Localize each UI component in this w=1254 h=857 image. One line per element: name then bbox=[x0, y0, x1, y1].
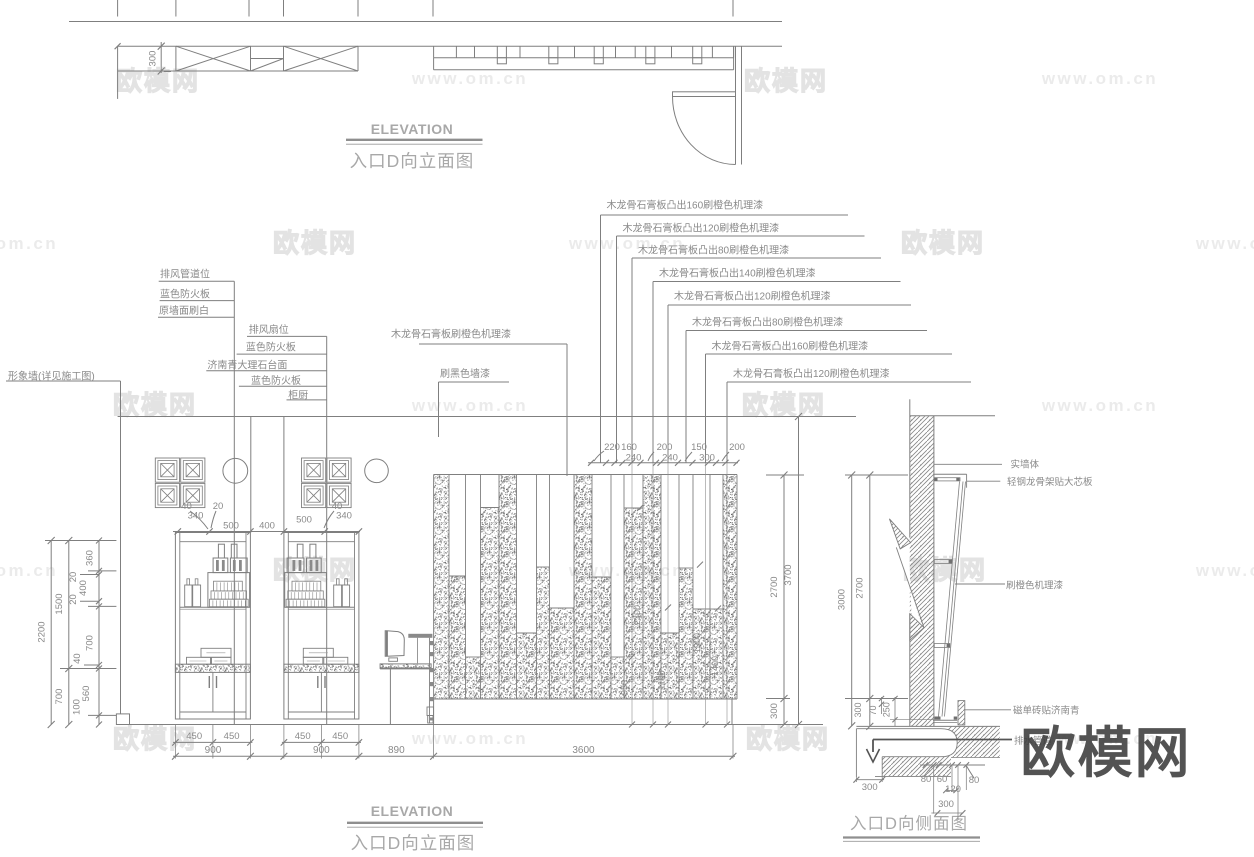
bottom dim extension verticals bbox=[174, 725, 176, 759]
left dim chain col1 2200 bbox=[50, 541, 52, 725]
svg-text:欧模网: 欧模网 bbox=[744, 66, 828, 96]
leader vertical group2 bbox=[326, 336, 328, 724]
ceiling grille 1 bbox=[155, 458, 179, 482]
drain leader dark arrow bbox=[873, 739, 1012, 741]
boxes on counter bbox=[201, 648, 231, 657]
cleat boxes bottom bbox=[427, 707, 434, 716]
dim extension lines right bbox=[766, 474, 804, 476]
stone countertop bbox=[175, 664, 250, 672]
svg-text:2300: 2300 bbox=[632, 605, 642, 625]
slanted glass panel bbox=[939, 482, 960, 717]
svg-text:160: 160 bbox=[621, 442, 637, 453]
POS monitor bbox=[385, 631, 404, 656]
svg-text:欧模网: 欧模网 bbox=[113, 390, 197, 420]
svg-text:500: 500 bbox=[223, 520, 239, 531]
crossed box 2 bbox=[357, 46, 359, 71]
cabinet outer box bbox=[175, 533, 250, 720]
svg-text:3000: 3000 bbox=[837, 589, 848, 610]
svg-text:蓝色防火板: 蓝色防火板 bbox=[246, 341, 296, 354]
svg-text:2200: 2200 bbox=[37, 621, 48, 642]
small box with diagonal bbox=[251, 58, 284, 60]
break bolt white band bbox=[898, 536, 923, 629]
svg-text:100: 100 bbox=[71, 699, 82, 715]
svg-text:木龙骨石膏板刷橙色机理漆: 木龙骨石膏板刷橙色机理漆 bbox=[391, 328, 511, 341]
left dim extension lines bbox=[45, 540, 116, 542]
floor slab hatch bbox=[948, 726, 1000, 757]
top plan strip: wall ticks bbox=[117, 0, 119, 17]
side labels right bbox=[934, 463, 1002, 465]
svg-text:木龙骨石膏板凸出120刷橙色机理漆: 木龙骨石膏板凸出120刷橙色机理漆 bbox=[674, 290, 831, 303]
big bottle A bbox=[310, 544, 316, 558]
svg-text:欧模网: 欧模网 bbox=[746, 724, 830, 754]
svg-text:200: 200 bbox=[657, 442, 673, 453]
tile upstand bbox=[958, 701, 965, 725]
cabinet top dim line bbox=[173, 531, 360, 533]
svg-text:www.om.cn: www.om.cn bbox=[0, 561, 58, 580]
side view floor line bbox=[856, 725, 1000, 727]
side view top line bbox=[910, 415, 995, 417]
panel top bracket bbox=[934, 473, 967, 475]
svg-text:300: 300 bbox=[769, 703, 780, 719]
svg-text:400: 400 bbox=[78, 580, 89, 596]
column edges bbox=[909, 416, 911, 538]
svg-text:木龙骨石膏板凸出80刷橙色机理漆: 木龙骨石膏板凸出80刷橙色机理漆 bbox=[638, 244, 789, 257]
svg-text:2700: 2700 bbox=[769, 576, 780, 597]
svg-text:木龙骨石膏板凸出80刷橙色机理漆: 木龙骨石膏板凸出80刷橙色机理漆 bbox=[692, 316, 843, 329]
step hatch below bbox=[882, 757, 951, 777]
svg-text:250: 250 bbox=[881, 702, 891, 717]
svg-text:500: 500 bbox=[296, 515, 312, 526]
svg-text:www.om.cn: www.om.cn bbox=[411, 396, 528, 415]
bolt spike bbox=[889, 519, 910, 549]
cabinet-edge extension verticals bbox=[250, 417, 252, 533]
svg-text:www.om.cn: www.om.cn bbox=[1195, 561, 1254, 580]
boxes on counter bbox=[303, 648, 333, 657]
svg-text:80: 80 bbox=[969, 775, 980, 786]
side hatched wall column bbox=[910, 416, 934, 727]
svg-text:欧模网: 欧模网 bbox=[113, 724, 197, 754]
svg-text:木龙骨石膏板凸出120刷橙色机理漆: 木龙骨石膏板凸出120刷橙色机理漆 bbox=[733, 367, 890, 380]
svg-text:3600: 3600 bbox=[572, 745, 595, 756]
svg-text:1500: 1500 bbox=[54, 593, 65, 614]
ceiling line of elevation bbox=[118, 416, 856, 418]
svg-text:蓝色防火板: 蓝色防火板 bbox=[251, 374, 301, 387]
svg-text:890: 890 bbox=[388, 745, 405, 756]
svg-text:20: 20 bbox=[68, 594, 79, 605]
bolt lower wedge bbox=[910, 614, 924, 641]
left wall base step bbox=[116, 714, 129, 725]
svg-text:入口D向侧面图: 入口D向侧面图 bbox=[850, 814, 968, 833]
wall shelf bracket bbox=[408, 634, 432, 638]
desk counter bbox=[380, 664, 431, 669]
svg-text:木龙骨石膏板凸出120刷橙色机理漆: 木龙骨石膏板凸出120刷橙色机理漆 bbox=[623, 222, 780, 235]
svg-text:300: 300 bbox=[938, 799, 954, 810]
bolt diagonal bbox=[896, 547, 924, 627]
svg-text:ELEVATION: ELEVATION bbox=[371, 803, 454, 819]
svg-text:入口D向立面图: 入口D向立面图 bbox=[351, 833, 476, 853]
top plan strip: ceiling line bbox=[69, 21, 782, 23]
svg-text:2700: 2700 bbox=[855, 577, 866, 598]
svg-text:3700: 3700 bbox=[783, 564, 794, 585]
bottom dim row 900/890/3600 bbox=[173, 755, 735, 757]
ceiling grille 2 bbox=[302, 458, 326, 482]
bottom dim row 450s bbox=[173, 741, 252, 743]
side dim 3000 bbox=[851, 475, 853, 726]
slim bottle pair bbox=[342, 585, 349, 607]
svg-text:450: 450 bbox=[224, 731, 240, 742]
svg-text:1100: 1100 bbox=[657, 670, 667, 689]
svg-text:www.om.cn: www.om.cn bbox=[0, 234, 58, 253]
svg-text:欧模网: 欧模网 bbox=[742, 390, 826, 420]
dim 3700 line bbox=[798, 417, 800, 725]
cabinet inner frame bbox=[287, 533, 289, 720]
svg-text:340: 340 bbox=[188, 511, 204, 522]
svg-text:www.om.cn: www.om.cn bbox=[411, 729, 528, 748]
svg-text:450: 450 bbox=[332, 731, 348, 742]
door leaf bbox=[673, 92, 736, 97]
panel foot bbox=[933, 719, 957, 721]
svg-text:木龙骨石膏板凸出140刷橙色机理漆: 木龙骨石膏板凸出140刷橙色机理漆 bbox=[659, 267, 816, 280]
svg-text:www.om.cn: www.om.cn bbox=[1195, 234, 1254, 253]
svg-text:240: 240 bbox=[662, 453, 678, 464]
drain channel outline bbox=[856, 729, 957, 757]
svg-text:木龙骨石膏板凸出160刷橙色机理漆: 木龙骨石膏板凸出160刷橙色机理漆 bbox=[607, 199, 764, 212]
svg-text:70: 70 bbox=[868, 705, 878, 715]
svg-text:220: 220 bbox=[604, 442, 620, 453]
slim bottle pair bbox=[185, 585, 192, 607]
svg-text:刷黑色墙漆: 刷黑色墙漆 bbox=[440, 367, 490, 380]
bottom-right dims bbox=[855, 777, 857, 782]
svg-text:240: 240 bbox=[626, 453, 642, 464]
svg-text:济南青大理石台面: 济南青大理石台面 bbox=[207, 359, 287, 372]
svg-text:1400: 1400 bbox=[710, 656, 720, 676]
svg-text:欧模网: 欧模网 bbox=[273, 228, 357, 258]
svg-text:950: 950 bbox=[620, 680, 630, 695]
svg-text:实墙体: 实墙体 bbox=[1011, 459, 1040, 471]
dims 80/60/80/120/300 bbox=[920, 764, 985, 766]
svg-text:排风扇位: 排风扇位 bbox=[249, 323, 289, 336]
svg-text:欧模网: 欧模网 bbox=[1020, 722, 1191, 784]
svg-text:700: 700 bbox=[85, 635, 96, 651]
cabinet doors bbox=[212, 672, 214, 712]
dim 2700/300 line bbox=[783, 475, 785, 725]
top strip outline bbox=[118, 45, 782, 47]
svg-text:300: 300 bbox=[853, 702, 863, 717]
plank stipple fills bbox=[434, 475, 449, 700]
big bottle B bbox=[297, 544, 303, 558]
ceiling lamp circle 2 bbox=[365, 459, 389, 483]
cabinet inner frame bbox=[179, 533, 181, 720]
panel mid brackets bbox=[934, 560, 952, 564]
side dim 2700/300 bbox=[869, 475, 871, 726]
svg-text:磁单砖贴济南青: 磁单砖贴济南青 bbox=[1013, 705, 1080, 717]
cabinet outer box bbox=[284, 533, 359, 720]
crossed box 1 bbox=[175, 46, 177, 71]
svg-text:200: 200 bbox=[729, 442, 745, 453]
svg-text:400: 400 bbox=[259, 520, 275, 531]
svg-text:700: 700 bbox=[54, 689, 65, 705]
svg-text:360: 360 bbox=[85, 550, 96, 566]
svg-text:原墙面刷白: 原墙面刷白 bbox=[159, 304, 209, 317]
glass shelf bbox=[180, 606, 246, 608]
svg-text:450: 450 bbox=[186, 731, 202, 742]
svg-text:300: 300 bbox=[862, 782, 878, 793]
svg-text:1900: 1900 bbox=[692, 633, 702, 653]
door swing arc bbox=[673, 97, 736, 165]
baseboard bbox=[434, 699, 732, 725]
svg-text:www.om.cn: www.om.cn bbox=[411, 69, 528, 88]
display riser box bbox=[208, 573, 250, 608]
side dim extensions bbox=[845, 474, 908, 476]
wall cleat strip bbox=[429, 638, 431, 724]
svg-text:www.om.cn: www.om.cn bbox=[1041, 396, 1158, 415]
drain channel white bbox=[856, 729, 957, 757]
svg-text:340: 340 bbox=[336, 511, 352, 522]
svg-text:排风管道位: 排风管道位 bbox=[160, 268, 210, 281]
svg-text:木龙骨石膏板凸出160刷橙色机理漆: 木龙骨石膏板凸出160刷橙色机理漆 bbox=[712, 340, 869, 353]
svg-text:40: 40 bbox=[72, 653, 83, 664]
svg-text:300: 300 bbox=[148, 51, 159, 67]
stone countertop bbox=[284, 664, 359, 672]
dim 300 (strip height) bbox=[160, 42, 162, 73]
side dims 70/250 bbox=[881, 697, 883, 714]
cabinet doors bbox=[320, 672, 322, 712]
big bottle A bbox=[218, 544, 224, 558]
leader vertical group1 bbox=[233, 281, 235, 724]
svg-text:入口D向立面图: 入口D向立面图 bbox=[350, 151, 475, 171]
svg-text:蓝色防火板: 蓝色防火板 bbox=[160, 288, 210, 301]
dentil band bbox=[434, 57, 734, 59]
left dim chain col2 1500/700 bbox=[68, 541, 70, 725]
svg-text:www.om.cn: www.om.cn bbox=[1041, 69, 1158, 88]
glass shelf bbox=[288, 606, 354, 608]
svg-text:轻钢龙骨架贴大芯板: 轻钢龙骨架贴大芯板 bbox=[1007, 476, 1093, 488]
monitor base bbox=[389, 658, 398, 661]
svg-text:150: 150 bbox=[691, 442, 707, 453]
left dim chain col3 bbox=[98, 541, 100, 725]
big bottle B bbox=[231, 544, 237, 558]
side wall stub above bbox=[909, 399, 911, 415]
interior dim verticals bbox=[631, 463, 633, 725]
desk leg bbox=[389, 669, 391, 725]
left wall line bbox=[120, 381, 122, 714]
svg-text:刷橙色机理漆: 刷橙色机理漆 bbox=[1006, 580, 1064, 592]
floor line of elevation bbox=[118, 724, 823, 726]
svg-text:560: 560 bbox=[81, 686, 92, 702]
svg-text:450: 450 bbox=[295, 731, 311, 742]
svg-text:80: 80 bbox=[921, 774, 932, 785]
channel left edge bbox=[855, 729, 857, 778]
svg-text:300: 300 bbox=[699, 453, 715, 464]
svg-text:20: 20 bbox=[213, 501, 224, 512]
display riser box bbox=[285, 573, 327, 608]
svg-text:欧模网: 欧模网 bbox=[901, 228, 985, 258]
product pyramid rows bbox=[292, 581, 321, 591]
plank divider lines bbox=[433, 475, 435, 700]
svg-text:ELEVATION: ELEVATION bbox=[371, 121, 454, 137]
ceiling lamp circle 1 bbox=[223, 458, 248, 483]
product pyramid rows bbox=[214, 581, 243, 591]
door frame double line bbox=[735, 46, 737, 164]
